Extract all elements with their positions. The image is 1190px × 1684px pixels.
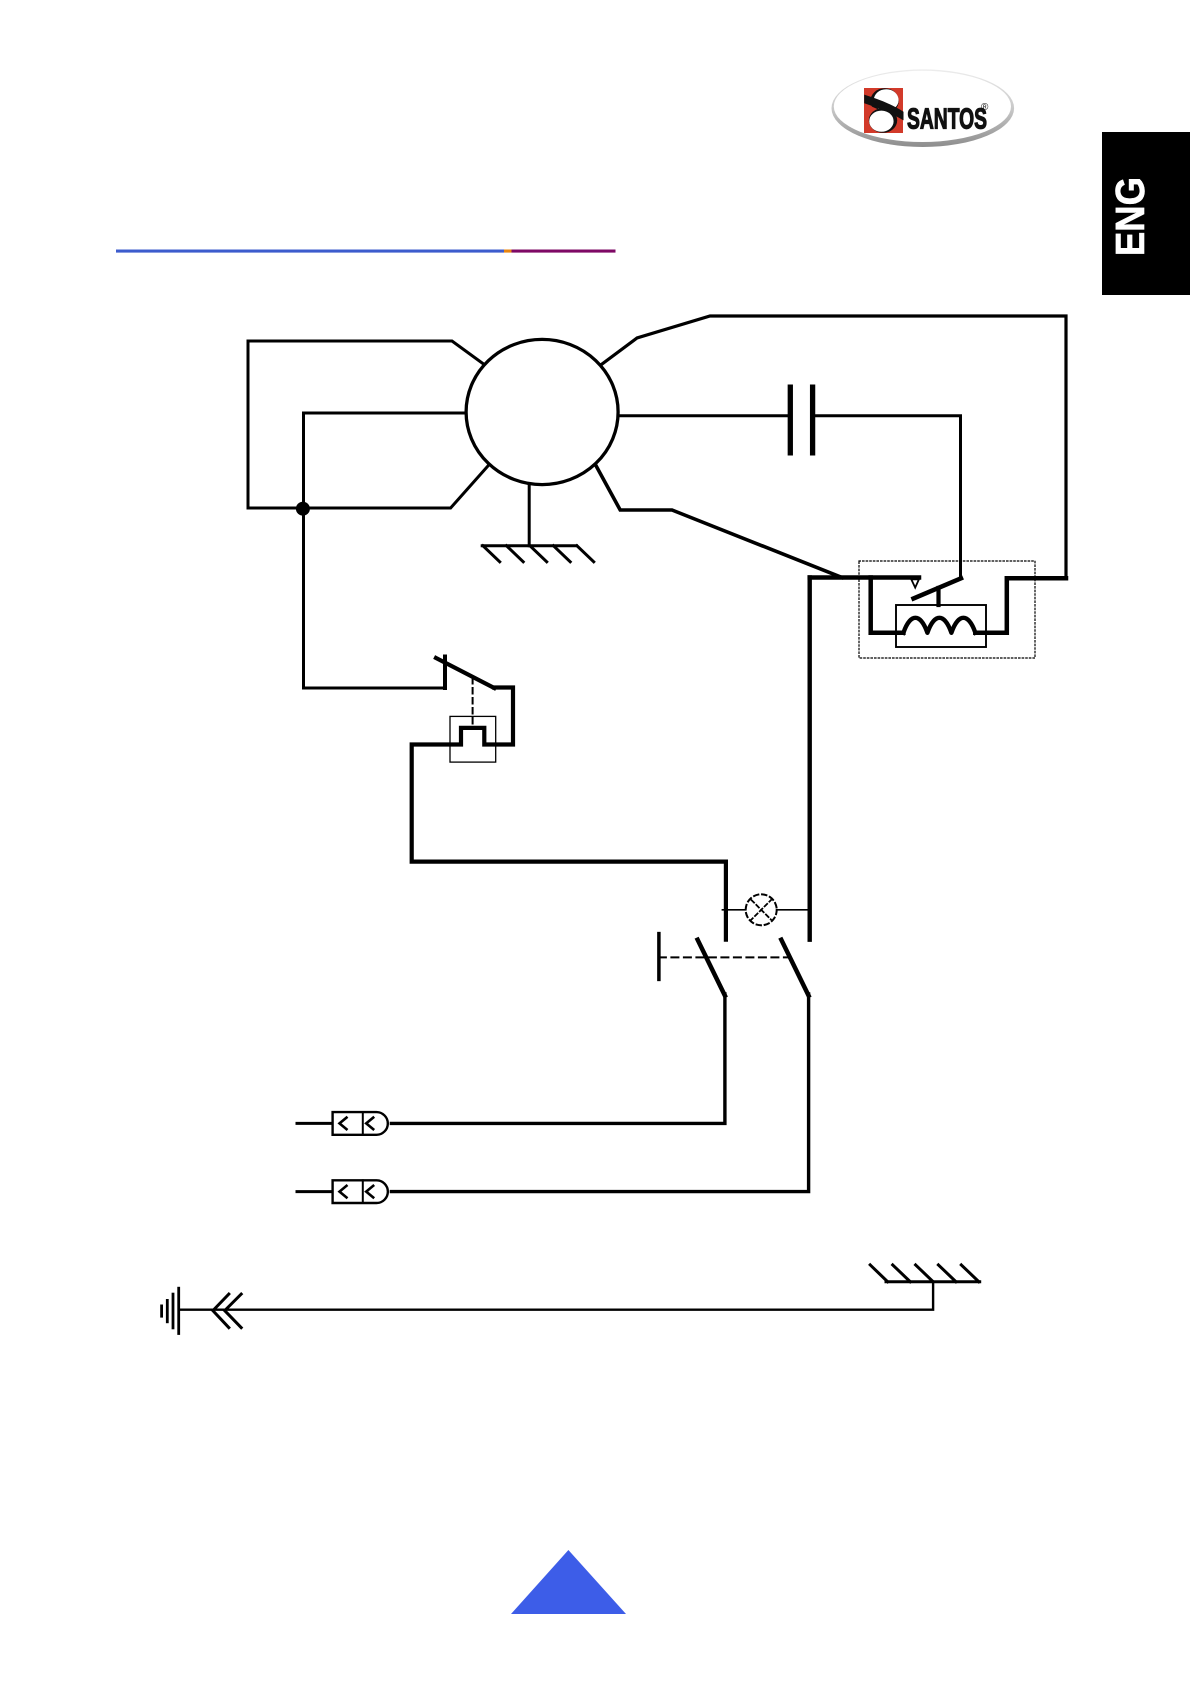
- svg-text:®: ®: [981, 102, 989, 113]
- svg-text:SANTOS: SANTOS: [907, 104, 987, 136]
- svg-text:ENG: ENG: [1107, 177, 1153, 256]
